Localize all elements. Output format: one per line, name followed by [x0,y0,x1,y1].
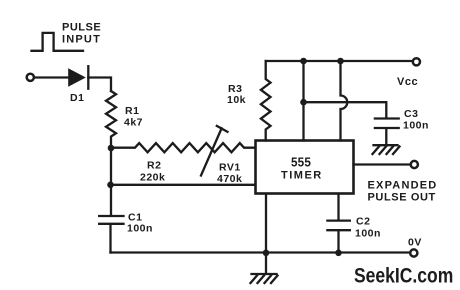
svg-text:470k: 470k [217,173,242,185]
svg-text:INPUT: INPUT [62,34,101,46]
svg-text:0V: 0V [408,237,422,249]
svg-text:100n: 100n [355,228,381,240]
svg-text:10k: 10k [227,94,246,106]
svg-text:100n: 100n [127,223,153,235]
svg-text:220k: 220k [140,172,165,184]
svg-text:EXPANDED: EXPANDED [368,180,438,192]
svg-text:R2: R2 [147,160,161,172]
svg-text:D1: D1 [70,92,84,104]
svg-text:555: 555 [291,155,311,170]
svg-text:C2: C2 [356,216,370,228]
svg-text:R1: R1 [125,105,139,117]
svg-text:TIMER: TIMER [281,170,323,182]
svg-text:C3: C3 [404,108,418,120]
svg-text:SeekIC.com: SeekIC.com [354,264,453,288]
svg-text:PULSE OUT: PULSE OUT [368,192,436,204]
svg-text:RV1: RV1 [219,162,241,174]
svg-text:PULSE: PULSE [62,22,101,34]
svg-text:Vcc: Vcc [397,76,418,88]
svg-text:100n: 100n [403,120,429,132]
svg-text:4k7: 4k7 [124,117,143,129]
